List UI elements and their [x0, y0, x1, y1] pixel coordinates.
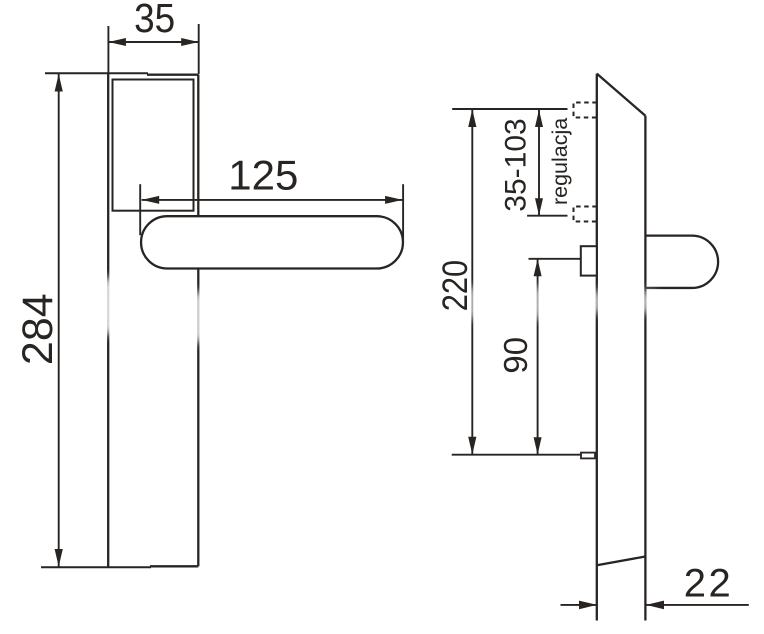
svg-text:125: 125 [228, 152, 298, 199]
svg-text:90: 90 [497, 337, 534, 374]
svg-text:35: 35 [134, 0, 175, 41]
svg-text:22: 22 [684, 561, 734, 605]
svg-text:284: 284 [14, 293, 62, 365]
svg-text:regulacja: regulacja [548, 118, 572, 205]
svg-text:220: 220 [435, 260, 474, 311]
svg-text:35-103: 35-103 [500, 118, 533, 211]
